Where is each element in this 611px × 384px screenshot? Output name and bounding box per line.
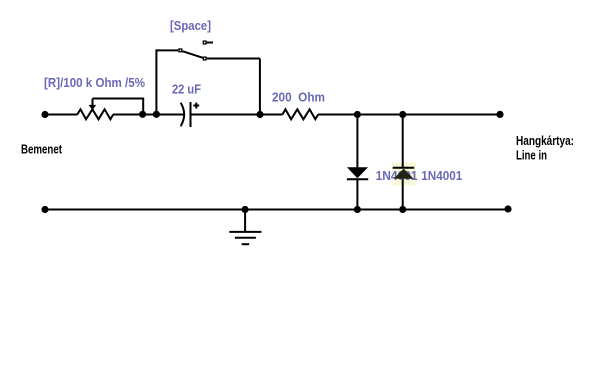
svg-text:22 uF: 22 uF [172,82,201,97]
svg-text:Line in: Line in [516,147,547,162]
svg-text:[R]/100 k Ohm /5%: [R]/100 k Ohm /5% [44,75,145,90]
svg-text:[Space]: [Space] [170,18,211,33]
svg-text:1N4001: 1N4001 [421,168,462,183]
svg-text:200 Ohm: 200 Ohm [272,90,325,105]
svg-text:1N4001: 1N4001 [376,168,418,183]
svg-text:Bemenet: Bemenet [21,142,62,157]
svg-text:Hangkártya:: Hangkártya: [516,133,574,148]
